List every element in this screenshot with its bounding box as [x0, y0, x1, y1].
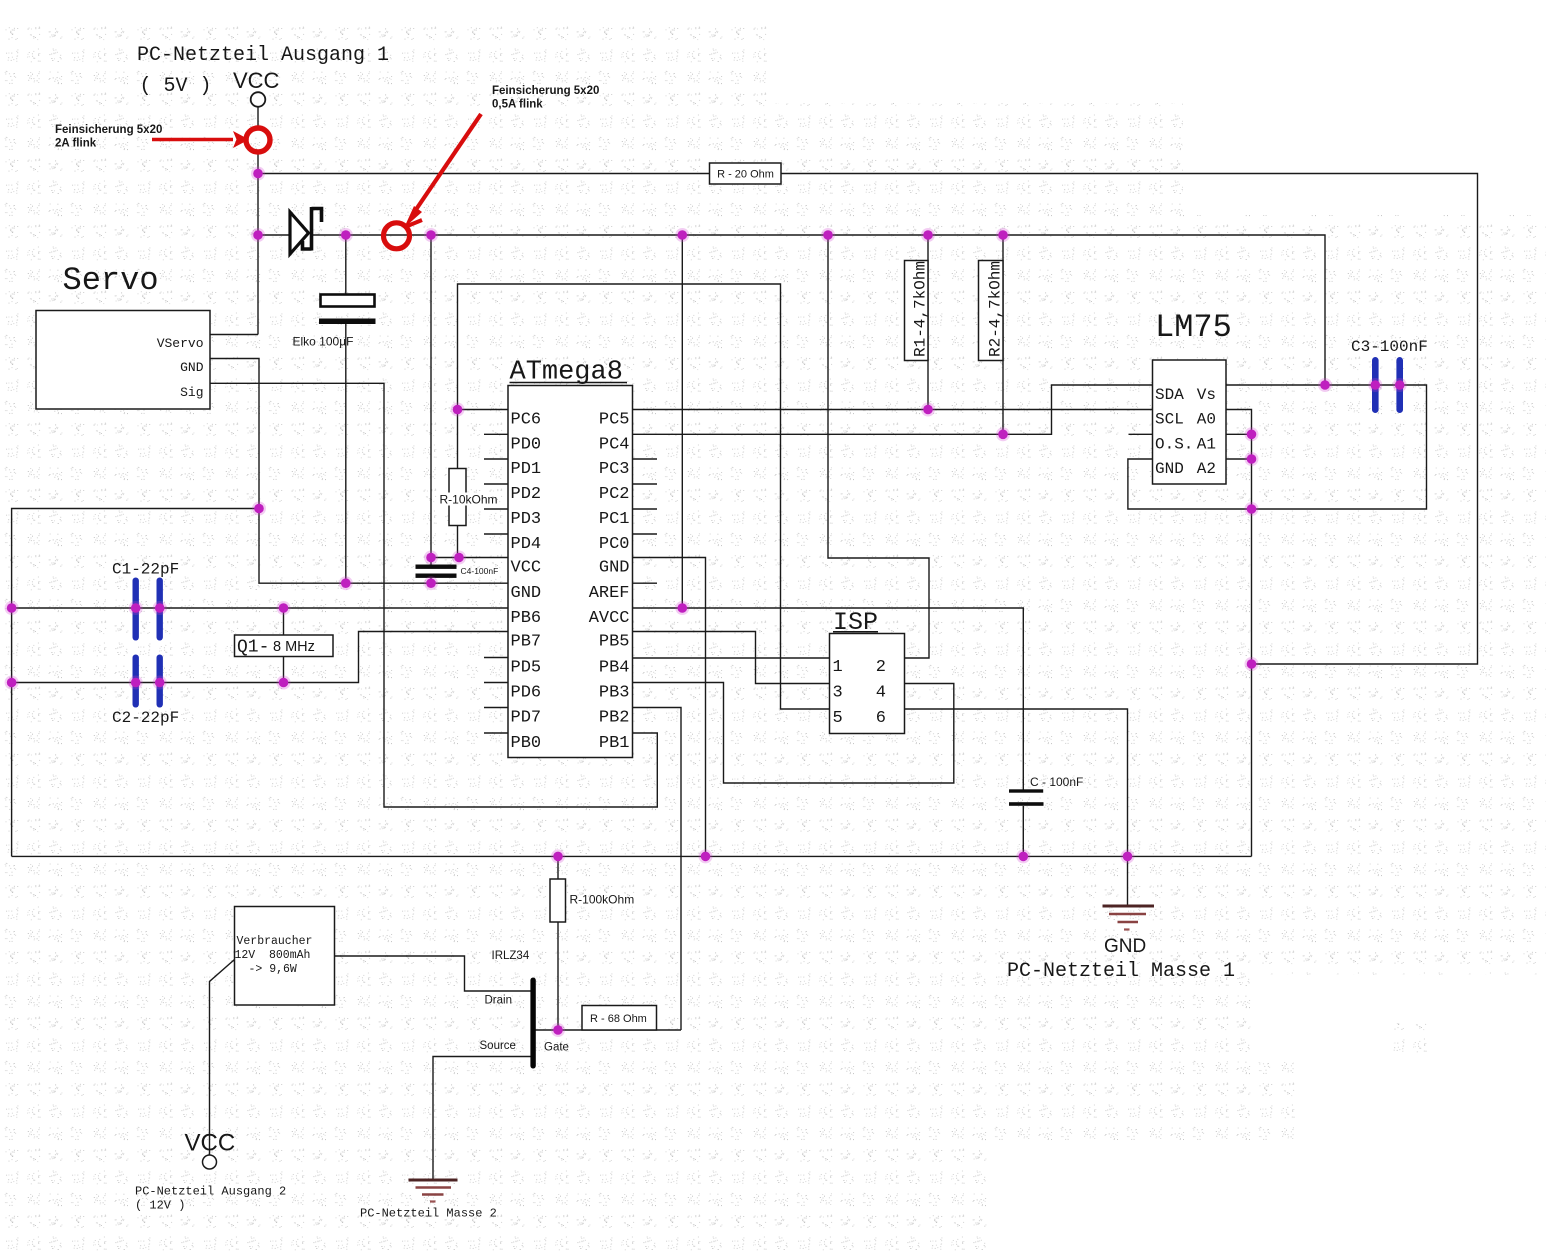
junction Elko top [339, 228, 353, 242]
wire ATmega8 GND right to GND bus [633, 558, 706, 857]
svg-text:Vs: Vs [1197, 386, 1216, 404]
pin stub PD7 [484, 707, 508, 709]
wire Servo GND to ATmega8 GND [210, 359, 508, 584]
svg-text:R - 68 Ohm: R - 68 Ohm [590, 1013, 647, 1025]
wire R-10kOhm branch [457, 410, 459, 558]
svg-text:GND: GND [1155, 460, 1184, 478]
svg-text:LM75: LM75 [1155, 309, 1232, 346]
wire LM75 A2 stub [1226, 458, 1252, 460]
node VCC terminal (5V) [251, 92, 266, 107]
wire LM75 O.S. stub [1129, 433, 1153, 435]
wire VCC terminal to fuse to bus [257, 107, 259, 174]
svg-text:PB1: PB1 [599, 734, 630, 753]
svg-text:C - 100nF: C - 100nF [1030, 775, 1083, 789]
junction VCC/diode [251, 228, 265, 242]
label PC-Netzteil Ausgang 1 [137, 44, 389, 98]
junction R2 top [996, 228, 1010, 242]
svg-text:PC3: PC3 [599, 460, 630, 479]
svg-text:Elko 100µF: Elko 100µF [293, 335, 354, 349]
pin stub PD2 [484, 483, 508, 485]
junction R1 top [921, 228, 935, 242]
junction Q1 bottom [277, 676, 291, 690]
svg-text:5: 5 [833, 709, 843, 728]
junction A-rail/GND return [1245, 502, 1259, 516]
capacitor C3-100nF [1372, 357, 1403, 413]
label PC-Netzteil Ausgang 2 [135, 1185, 286, 1213]
svg-text:Servo: Servo [63, 262, 159, 299]
svg-text:GND: GND [511, 584, 542, 603]
svg-text:R-100kOhm: R-100kOhm [570, 893, 635, 907]
transistor Q2 IRLZ34 [530, 978, 535, 1069]
wire Servo Sig to ATmega8 PB1 [210, 383, 657, 807]
pin stub PD1 [484, 458, 508, 460]
junction Elko/GND [339, 576, 353, 590]
wire VCC vertical [257, 174, 259, 236]
IC U1 ATmega8 [508, 386, 633, 758]
svg-text:12V 800mAh: 12V 800mAh [235, 949, 311, 962]
junction A1 [1245, 427, 1259, 441]
svg-text:AREF: AREF [589, 584, 630, 603]
wire R-20 Ohm branch: VCC bus top to LM75 address rail [258, 174, 1478, 665]
junction AVCC [675, 601, 689, 615]
wire LM75 Vs to C3 to LM75 GND [1128, 385, 1427, 509]
pin stub PC0 [633, 533, 658, 535]
crystal Q1 8 MHz [235, 635, 334, 657]
svg-text:1: 1 [833, 658, 843, 677]
svg-text:PC6: PC6 [511, 411, 542, 430]
svg-text:O.S.: O.S. [1155, 435, 1193, 453]
servo box [36, 311, 210, 410]
wire Elko branch [345, 235, 347, 583]
junction C-100nF/GND bus [1016, 849, 1030, 863]
svg-text:C3-100nF: C3-100nF [1351, 338, 1428, 356]
svg-text:PC5: PC5 [599, 411, 630, 430]
svg-text:VCC: VCC [511, 559, 542, 578]
consumer load box Verbraucher [235, 907, 335, 1006]
junction VCC/C4 [424, 551, 438, 565]
svg-text:R2-4,7kOhm: R2-4,7kOhm [987, 261, 1005, 357]
svg-text:PC-Netzteil Ausgang 1: PC-Netzteil Ausgang 1 [137, 44, 389, 67]
svg-text:PC-Netzteil Masse 2: PC-Netzteil Masse 2 [360, 1207, 497, 1221]
svg-text:2: 2 [876, 658, 886, 677]
svg-text:PD1: PD1 [511, 460, 542, 479]
svg-text:PD2: PD2 [511, 485, 542, 504]
svg-text:PB2: PB2 [599, 709, 630, 728]
ground PC-Netzteil Masse 2 [409, 1180, 458, 1202]
junction ISP VCC feed [821, 228, 835, 242]
junction AVCC feed [675, 228, 689, 242]
wire LM75 A0/A1/A2 rail to GND bus [1226, 410, 1252, 857]
svg-text:PD0: PD0 [511, 435, 542, 454]
wire gate node [536, 1029, 682, 1031]
svg-text:PC2: PC2 [599, 485, 630, 504]
svg-text:( 5V ): ( 5V ) [140, 75, 212, 98]
pin stub PC3 [633, 458, 658, 460]
svg-text:3: 3 [833, 684, 843, 703]
wire VCC feed to AVCC [681, 235, 683, 608]
capacitor C1-22pF [133, 578, 163, 641]
svg-text:GND: GND [599, 559, 630, 578]
junction C1 plate B [153, 601, 167, 615]
svg-text:GND: GND [180, 360, 204, 375]
svg-text:C2-22pF: C2-22pF [112, 709, 179, 727]
svg-text:R - 20 Ohm: R - 20 Ohm [717, 169, 774, 181]
junction VCC bus top [251, 167, 265, 181]
svg-text:C1-22pF: C1-22pF [112, 561, 179, 579]
wire GND left rail [12, 509, 259, 857]
svg-text:IRLZ34: IRLZ34 [492, 950, 530, 962]
junction VCC/R-10k [452, 551, 466, 565]
svg-text:PB3: PB3 [599, 684, 630, 703]
resistor R2-4,7kOhm [979, 261, 1004, 361]
svg-text:VServo: VServo [157, 336, 204, 351]
pin stub PB0 [484, 732, 508, 734]
resistor R1-4,7kOhm [905, 261, 929, 361]
pin stub PD5 [484, 657, 508, 659]
svg-text:6: 6 [876, 709, 886, 728]
wire XTAL2 row: C2 / Q1 to PB7 [12, 632, 508, 683]
node VCC terminal (12V) [203, 1155, 217, 1169]
wire PB3 MOSI to ISP pin 4 [633, 683, 954, 784]
svg-text:PD7: PD7 [511, 709, 542, 728]
svg-text:PB5: PB5 [599, 633, 630, 652]
wire VCC feed to ISP pin 2 [828, 235, 929, 658]
wire R2 pull-up branch [1002, 235, 1004, 434]
junction C1 plate A [129, 601, 143, 615]
svg-text:VCC: VCC [233, 68, 280, 93]
wire PB4 MISO to ISP pin 1 [633, 657, 830, 659]
junction Q1 top [277, 601, 291, 615]
fuse F2 0,5A (red circle) [384, 223, 410, 249]
pin stub PD3 [484, 508, 508, 510]
wire GND bus bottom [12, 855, 1252, 857]
wire GND bus to Masse 1 symbol [1127, 856, 1129, 906]
junction Vs feed [1318, 378, 1332, 392]
junction R1/SCL [921, 403, 935, 417]
svg-text:PD3: PD3 [511, 510, 542, 529]
wire 12V VCC to Verbraucher [210, 960, 235, 1155]
label Verbraucher 12V 800mAh 9,6W [235, 935, 313, 976]
junction C2 row left [5, 676, 19, 690]
svg-text:SDA: SDA [1155, 386, 1184, 404]
svg-text:R-10kOhm: R-10kOhm [440, 493, 498, 507]
svg-text:ISP: ISP [833, 608, 878, 637]
capacitor Elko 100uF [319, 295, 376, 325]
svg-text:Source: Source [480, 1040, 516, 1052]
capacitor C4-100nF [416, 565, 457, 578]
capacitor C-100nF [1009, 789, 1044, 806]
pin stub PD6 [484, 682, 508, 684]
svg-text:0,5A flink: 0,5A flink [492, 99, 543, 111]
wire VCC bus (5V) through diode to LM75 Vs [258, 235, 1325, 385]
wire R-100kOhm branch [557, 856, 559, 1030]
label ISP [833, 608, 878, 637]
annotation arrow fuse 2A [152, 131, 249, 148]
svg-text:Feinsicherung 5x20: Feinsicherung 5x20 [492, 85, 599, 97]
pin stub PD4 [484, 533, 508, 535]
svg-text:PB7: PB7 [511, 633, 542, 652]
svg-text:PD6: PD6 [511, 684, 542, 703]
svg-text:Drain: Drain [485, 995, 512, 1007]
wire Source to Masse 2 [433, 1057, 531, 1181]
svg-text:PB0: PB0 [511, 734, 542, 753]
wire SDA: PC4 to LM75 SDA [633, 385, 1153, 434]
svg-text:PC4: PC4 [599, 435, 630, 454]
svg-text:PD5: PD5 [511, 659, 542, 678]
svg-text:PC1: PC1 [599, 510, 630, 529]
wire PB5 SCK to ISP pin 3 [633, 632, 830, 684]
annotation arrow fuse 0,5A [404, 114, 481, 228]
pin stub PC2 [633, 483, 658, 485]
svg-text:Feinsicherung 5x20: Feinsicherung 5x20 [55, 124, 162, 136]
resistor R-10kOhm [449, 469, 466, 526]
svg-text:( 12V ): ( 12V ) [135, 1199, 185, 1213]
svg-text:PD4: PD4 [511, 535, 542, 554]
wire PB2 to gate resistor [633, 708, 682, 1031]
svg-text:PC0: PC0 [599, 535, 630, 554]
junction A-rail/R-20 return [1245, 657, 1259, 671]
svg-text:A2: A2 [1197, 460, 1216, 478]
wire R1 pull-up branch [927, 235, 929, 410]
svg-text:AVCC: AVCC [589, 609, 630, 628]
junction servo GND split [252, 502, 266, 516]
value label R-10kOhm [438, 493, 488, 506]
svg-text:PC-Netzteil Ausgang 2: PC-Netzteil Ausgang 2 [135, 1185, 286, 1199]
wire SCL: PC5 to LM75 SCL [633, 409, 1153, 411]
wire XTAL1 row: C1 / Q1 to PB6 [12, 607, 508, 609]
junction R-100k/gate [551, 1023, 565, 1037]
svg-text:GND: GND [1104, 936, 1146, 957]
svg-text:2A flink: 2A flink [55, 138, 97, 150]
junction VCC feed [424, 228, 438, 242]
junction C2 plate B [153, 676, 167, 690]
wire AREF stub [633, 582, 658, 584]
svg-text:PB6: PB6 [511, 609, 542, 628]
svg-text:Gate: Gate [544, 1042, 569, 1054]
resistor R-68 Ohm [582, 1006, 657, 1031]
svg-text:VCC: VCC [185, 1130, 236, 1157]
pin stub PC1 [633, 508, 658, 510]
wire VCC to Servo VServo pin [210, 235, 258, 335]
svg-text:R1-4,7kOhm: R1-4,7kOhm [912, 261, 930, 357]
junction C2 plate A [129, 676, 143, 690]
svg-text:8 MHz: 8 MHz [273, 639, 315, 655]
wire crystal Q1 stubs [283, 608, 285, 683]
label ATmega8 [510, 358, 628, 388]
junction Masse1/GND bus [1121, 849, 1135, 863]
fuse F1 2A (red circle) [246, 128, 270, 152]
wire VCC feed to ATmega8 VCC pin [431, 235, 508, 558]
capacitor C2-22pF [133, 655, 163, 708]
wire ISP pin 6 to GND bus [905, 709, 1128, 856]
junction C4/GND [424, 576, 438, 590]
svg-text:Sig: Sig [180, 385, 203, 400]
junction C1 row left [5, 601, 19, 615]
svg-text:C4-100nF: C4-100nF [461, 566, 499, 576]
wire AVCC to C-100nF to GND bus [633, 608, 1024, 856]
svg-text:Q1-: Q1- [237, 638, 269, 658]
junction R2/SDA [996, 427, 1010, 441]
junction R-100k/GND bus [551, 849, 565, 863]
wire PC6 reset to ISP pin 5 [458, 284, 830, 709]
resistor R-100kOhm [550, 879, 566, 922]
junction C3 plate B [1393, 378, 1407, 392]
svg-text:4: 4 [876, 684, 886, 703]
value label Q1 8 MHz [237, 638, 315, 658]
junction C3 plate A [1368, 378, 1382, 392]
junction PC6/R-10k [451, 403, 465, 417]
svg-text:PB4: PB4 [599, 659, 630, 678]
resistor R-20 Ohm [710, 163, 782, 184]
svg-text:A0: A0 [1197, 411, 1216, 429]
wire LM75 A1 stub [1226, 433, 1252, 435]
svg-text:PC-Netzteil Masse 1: PC-Netzteil Masse 1 [1007, 960, 1235, 983]
wire C4 stubs [430, 558, 432, 584]
junction A2 [1245, 452, 1259, 466]
IC U2 LM75 [1153, 360, 1227, 484]
svg-text:-> 9,6W: -> 9,6W [249, 963, 297, 976]
junction GND drop/bus [699, 849, 713, 863]
wire Verbraucher to Drain [335, 956, 531, 991]
ground PC-Netzteil Masse 1 [1103, 906, 1155, 930]
pin stub PD0 [484, 433, 508, 435]
connector J1 ISP [830, 634, 905, 734]
svg-text:Verbraucher: Verbraucher [237, 935, 313, 948]
diode D1 (schottky) [290, 207, 322, 254]
svg-text:A1: A1 [1197, 435, 1216, 453]
svg-text:SCL: SCL [1155, 411, 1184, 429]
